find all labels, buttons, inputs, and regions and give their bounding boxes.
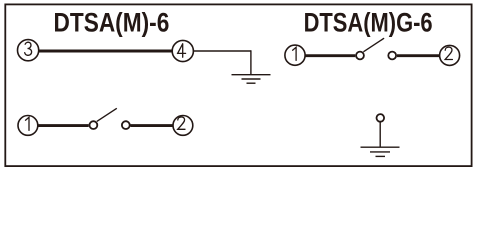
wire ground terminal to GND2 bbox=[379, 122, 381, 147]
wire contact to 2 bbox=[131, 124, 174, 127]
terminal 2 (left switch) bbox=[173, 116, 193, 136]
ground GND2 bbox=[361, 147, 400, 156]
switch contact A (left switch) bbox=[90, 121, 98, 129]
pin number 2 bbox=[445, 47, 452, 59]
wire 1 to contact bbox=[38, 124, 89, 127]
terminal 2 (right switch) bbox=[440, 45, 460, 65]
terminal 1 (left switch) bbox=[18, 116, 38, 136]
border frame bbox=[5, 4, 471, 166]
pin number 1 bbox=[293, 47, 297, 60]
terminal 3 bbox=[18, 40, 39, 61]
wire contact to 2 (right switch) bbox=[397, 54, 440, 57]
ground terminal circle (bottom right) bbox=[377, 114, 385, 122]
switch lever (left switch) bbox=[97, 108, 117, 121]
pin number 3 bbox=[25, 42, 32, 55]
wire 4 to ground (horizontal) bbox=[194, 50, 251, 52]
ground GND1 bbox=[232, 75, 271, 84]
switch contact B (right switch) bbox=[388, 52, 396, 60]
terminal 1 (right switch) bbox=[285, 45, 305, 65]
switch contact A (right switch) bbox=[356, 52, 364, 60]
wire 4 to ground (vertical) bbox=[250, 50, 252, 74]
terminal 4 bbox=[172, 40, 193, 61]
switch contact B (left switch) bbox=[122, 121, 130, 129]
svg-text:DTSA(M)G-6: DTSA(M)G-6 bbox=[304, 8, 433, 38]
switch lever (right switch) bbox=[363, 38, 384, 52]
svg-text:DTSA(M)-6: DTSA(M)-6 bbox=[54, 8, 170, 38]
pin number 4 bbox=[177, 44, 185, 57]
pin number 1 bbox=[26, 117, 30, 130]
pin number 2 bbox=[178, 117, 185, 129]
wire 3-4 bbox=[39, 50, 172, 53]
wire 1 to contact (right switch) bbox=[305, 54, 355, 57]
